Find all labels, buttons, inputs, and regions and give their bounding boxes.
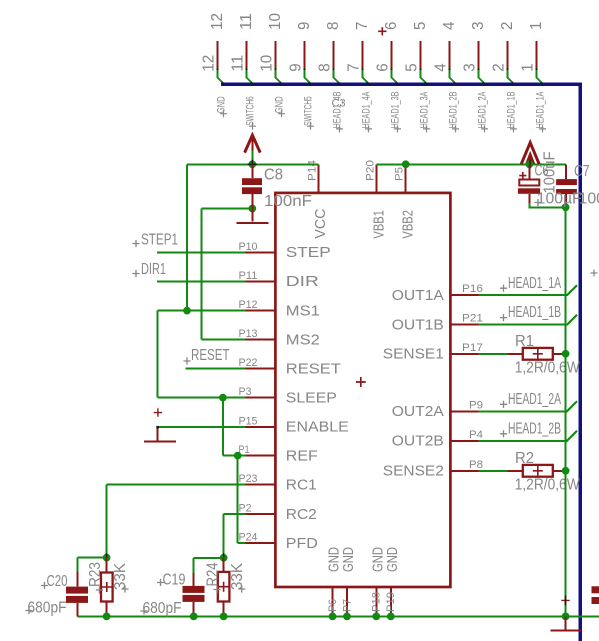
bus horizontal top: [221, 82, 582, 86]
wire jog to REF: [223, 455, 238, 457]
svg-text:10: 10: [267, 13, 284, 30]
wire pin 4 to bus: [450, 70, 457, 85]
label origin cross pin 1: [539, 125, 546, 132]
IC pin SENSE1 stub (P17): [450, 353, 478, 355]
wire C8 bottom to MS2 net: [202, 208, 253, 210]
IC pin VBB1 stub (P20): [376, 164, 378, 193]
pin 9 origin tick: [304, 69, 306, 72]
svg-text:HEAD1_2A: HEAD1_2A: [477, 91, 489, 128]
svg-text:OUT2B: OUT2B: [392, 434, 444, 450]
svg-text:100µF: 100µF: [537, 191, 582, 208]
svg-text:3: 3: [462, 63, 479, 71]
label cross HEAD1_2A: [500, 401, 507, 408]
IC pin GND stub (P7): [346, 587, 348, 616]
svg-text:5: 5: [412, 22, 429, 30]
svg-text:STEP: STEP: [286, 245, 331, 261]
pin 5 origin tick: [420, 69, 422, 72]
wire VBB net horizontal: [377, 163, 566, 165]
svg-text:P2: P2: [239, 503, 252, 515]
svg-text:9: 9: [288, 63, 305, 71]
svg-text:P11: P11: [239, 270, 258, 282]
label origin cross pin 8: [336, 125, 343, 132]
capacitor C20 top lead: [76, 571, 78, 586]
svg-text:33K: 33K: [112, 562, 129, 590]
junction R23 top: [103, 554, 111, 562]
wire RESET row: [185, 368, 245, 370]
wire STEP row: [157, 251, 245, 253]
svg-text:VBB1: VBB1: [371, 210, 387, 239]
connector pin 10 stub: [275, 41, 277, 70]
svg-text:DIR: DIR: [286, 274, 319, 290]
connector pin 11 stub: [246, 41, 248, 70]
svg-text:7: 7: [346, 63, 363, 71]
IC pin OUT2B stub (P4): [450, 440, 478, 442]
IC pin GND stub (P19): [390, 587, 392, 616]
svg-text:680pF: 680pF: [28, 600, 67, 617]
svg-text:P24: P24: [239, 532, 258, 544]
junction R24 top: [220, 554, 228, 562]
svg-text:P22: P22: [239, 357, 258, 369]
connector pin 7 stub: [362, 41, 364, 70]
svg-text:8: 8: [317, 63, 334, 71]
R24 origin cross: [219, 582, 229, 592]
pin 12 origin tick: [217, 69, 219, 72]
R2 right lead: [553, 470, 566, 472]
svg-text:2: 2: [491, 63, 508, 71]
arrow stem: [251, 138, 253, 151]
svg-text:6: 6: [383, 22, 400, 30]
junction P19 on ground rail: [387, 613, 395, 621]
svg-text:SENSE2: SENSE2: [383, 464, 444, 480]
wire pin 1 to bus: [537, 70, 544, 85]
wire PFD row: [238, 542, 246, 544]
svg-text:P14: P14: [306, 160, 318, 181]
R24 bottom lead: [223, 602, 225, 617]
svg-text:C7: C7: [574, 163, 590, 180]
label origin cross pin 5: [423, 125, 430, 132]
label cross HEAD1_1A: [500, 285, 507, 292]
svg-text:P4: P4: [469, 429, 483, 441]
capacitor C6 bottom lead: [528, 194, 530, 203]
label cross 680pF: [25, 607, 32, 614]
svg-text:100uF: 100uF: [542, 152, 559, 194]
pin 3 origin tick: [478, 69, 480, 72]
pin 8 origin tick: [333, 69, 335, 72]
label cross STEP1: [132, 240, 139, 247]
connector pin 2 stub: [507, 41, 509, 70]
svg-text:GND: GND: [341, 547, 357, 572]
IC pin MS1 stub (P12): [245, 310, 275, 312]
junction P7 on ground rail: [343, 613, 351, 621]
svg-text:P13: P13: [239, 328, 258, 340]
connector pin 9 stub: [304, 41, 306, 70]
wire vertical MS2 net: [201, 209, 203, 340]
svg-text:P5: P5: [394, 167, 406, 181]
svg-text:12: 12: [209, 13, 226, 30]
svg-text:VBB2: VBB2: [401, 210, 417, 239]
connector pin 4 stub: [449, 41, 451, 70]
IC pin GND stub (P6): [332, 587, 334, 616]
svg-text:DIR1: DIR1: [141, 261, 166, 278]
junction C8 bottom: [248, 205, 256, 213]
wire to C19: [194, 557, 224, 559]
label origin cross pin 12: [220, 110, 227, 117]
svg-text:P8: P8: [469, 459, 483, 471]
svg-text:C8: C8: [264, 167, 283, 184]
IC pin DIR stub (P11): [245, 281, 275, 283]
wire RC2 row: [224, 513, 246, 515]
wire VCC net vertical to MS1: [186, 164, 188, 310]
svg-text:HEAD1_3A: HEAD1_3A: [419, 91, 431, 128]
svg-text:P7: P7: [341, 599, 353, 612]
svg-text:1,2R/0,6W: 1,2R/0,6W: [515, 477, 580, 494]
IC pin RESET stub (P22): [245, 368, 275, 370]
svg-text:11: 11: [230, 55, 247, 72]
label cross DIR1: [132, 270, 139, 277]
wire MS1 row: [157, 310, 245, 312]
svg-text:OUT1B: OUT1B: [392, 317, 444, 333]
supply arrow VCC (left): [245, 135, 261, 152]
svg-text:680pF: 680pF: [143, 600, 182, 617]
pin 11 origin tick: [246, 69, 248, 72]
ground stub: [565, 616, 567, 629]
wire vertical MS1 to SLEEP: [156, 311, 158, 398]
junction P18 on ground rail: [372, 613, 380, 621]
svg-text:PFD: PFD: [286, 536, 318, 552]
svg-text:P20: P20: [365, 160, 377, 181]
R24 top lead: [223, 558, 225, 572]
R24 origin mark: [223, 553, 225, 562]
svg-text:GND: GND: [216, 96, 228, 113]
wire pin 8 to bus: [334, 70, 341, 85]
svg-text:12: 12: [201, 55, 218, 72]
connector pin 12 stub: [217, 41, 219, 70]
gray cross right edge: [591, 270, 598, 277]
label cross HEAD1_1B: [500, 314, 507, 321]
svg-text:RESET: RESET: [286, 361, 341, 377]
IC pin VBB2 stub (P5): [405, 164, 407, 193]
C8 origin mark: [248, 160, 258, 169]
svg-text:100nF: 100nF: [264, 193, 312, 210]
svg-text:P15: P15: [239, 416, 258, 428]
svg-text:2: 2: [499, 22, 516, 30]
R23 origin mark: [106, 553, 108, 562]
connector pin 1 stub: [536, 41, 538, 70]
pin 10 origin tick: [275, 69, 277, 72]
wire RC1 row: [107, 484, 246, 486]
label cross HEAD1_2B: [500, 430, 507, 437]
svg-text:OUT2A: OUT2A: [392, 404, 444, 420]
wire pin 11 to bus: [247, 70, 254, 85]
IC pin SLEEP stub (P3): [245, 397, 275, 399]
wire vertical sense/ground rail right: [565, 207, 567, 616]
R23 origin cross: [102, 582, 112, 592]
svg-text:3: 3: [470, 22, 487, 30]
bus vertical right: [578, 83, 582, 641]
C6 origin mark: [529, 160, 531, 168]
capacitor C20 bottom lead: [76, 603, 78, 617]
svg-text:HEAD1_2B: HEAD1_2B: [508, 420, 561, 437]
svg-text:11: 11: [238, 13, 255, 30]
R23 bottom lead: [106, 602, 108, 617]
svg-text:1: 1: [528, 22, 545, 30]
C20 top wire: [76, 558, 78, 572]
wire REF row: [238, 455, 246, 457]
label origin cross pin 10: [278, 110, 285, 117]
svg-text:OUT1A: OUT1A: [392, 288, 444, 304]
junction SLEEP: [219, 394, 227, 402]
wire HEAD1_1A to bus: [478, 285, 577, 295]
IC pin RC2 stub (P2): [245, 513, 275, 515]
label cross R23: [96, 586, 103, 593]
capacitor C8 plates: [242, 178, 262, 185]
label cross 33K: [121, 585, 128, 592]
svg-text:SENSE1: SENSE1: [383, 347, 444, 363]
svg-text:4: 4: [441, 22, 458, 30]
junction R2 right: [562, 467, 570, 475]
wire to C20: [77, 557, 106, 559]
svg-text:GND: GND: [274, 96, 286, 113]
svg-text:HEAD1_1B: HEAD1_1B: [506, 92, 518, 129]
IC pin MS2 stub (P13): [245, 339, 275, 341]
svg-text:R23: R23: [87, 562, 104, 587]
label cross C20: [41, 582, 48, 589]
ground origin cross: [154, 408, 162, 416]
pin 7 origin tick: [362, 69, 364, 72]
wire VCC net horizontal: [187, 163, 318, 165]
connector pin 3 stub: [478, 41, 480, 70]
svg-text:RC2: RC2: [286, 507, 317, 523]
label cross 680pF: [140, 607, 147, 614]
svg-text:R2: R2: [515, 450, 534, 467]
capacitor C7 top lead: [565, 164, 567, 179]
capacitor C7 bottom lead: [565, 194, 567, 207]
label origin cross pin 2: [510, 125, 517, 132]
svg-text:MS2: MS2: [286, 332, 320, 348]
IC pin ENABLE stub (P15): [245, 426, 275, 428]
junction C6/C7 bottom: [562, 203, 570, 211]
IC pin SENSE2 stub (P8): [450, 470, 478, 472]
svg-text:P3: P3: [239, 386, 252, 398]
ground bar: [144, 441, 176, 443]
capacitor C19 top lead: [193, 573, 195, 586]
junction VCC node: [248, 160, 256, 168]
junction ground rail right: [562, 613, 570, 621]
IC U1 origin cross: [356, 377, 366, 387]
capacitor C8 top lead: [251, 164, 253, 178]
capacitor C7 plates: [556, 179, 577, 185]
junction P6 on ground rail: [329, 613, 337, 621]
IC pin OUT1A stub (P16): [450, 294, 478, 296]
label cross 33K: [238, 585, 245, 592]
svg-text:HEAD1_2B: HEAD1_2B: [448, 92, 460, 129]
IC pin RC1 stub (P23): [245, 484, 275, 486]
C6 polarity plus: [519, 172, 526, 179]
op IC A4983 U1 body: [275, 193, 450, 587]
junction R1 right: [562, 350, 570, 358]
pin 4 origin tick: [449, 69, 451, 72]
svg-text:P9: P9: [469, 399, 483, 411]
svg-text:SWITCH6: SWITCH6: [245, 96, 257, 126]
wire DIR row: [157, 281, 245, 283]
junction C19 bottom: [190, 613, 198, 621]
capacitor C8 bottom lead: [251, 194, 253, 222]
wire pin 12 to bus: [218, 70, 225, 85]
IC pin OUT1B stub (P21): [450, 324, 478, 326]
wire HEAD1_1B to bus: [478, 315, 577, 325]
R23 top lead: [106, 558, 108, 573]
svg-text:ENABLE: ENABLE: [286, 420, 349, 436]
label origin cross pin 3: [481, 125, 488, 132]
svg-text:P18: P18: [371, 592, 383, 612]
wire vertical SLEEP to REF: [222, 398, 224, 456]
junction R23 bottom: [103, 613, 111, 621]
wire SLEEP row: [157, 397, 245, 399]
svg-text:33K: 33K: [229, 562, 246, 590]
svg-text:P19: P19: [385, 592, 397, 612]
pin 1 origin tick: [536, 69, 538, 72]
svg-text:R1: R1: [515, 333, 534, 350]
svg-text:P12: P12: [239, 299, 258, 311]
svg-text:VCC: VCC: [313, 209, 329, 239]
wire MS2 row: [202, 339, 246, 341]
C19 top wire: [193, 558, 195, 573]
wire RC1 vertical: [106, 485, 108, 558]
svg-text:RESET: RESET: [191, 347, 230, 364]
wire pin 2 to bus: [508, 70, 515, 85]
capacitor (cut off) right edge plates: [592, 586, 599, 593]
svg-text:P17: P17: [462, 342, 483, 354]
capacitor C6 plates (polarized): [519, 180, 539, 186]
svg-text:C20: C20: [47, 573, 68, 590]
R1 left lead: [507, 353, 523, 355]
label cross RESET: [183, 357, 190, 364]
svg-text:HEAD1_2A: HEAD1_2A: [508, 391, 561, 408]
wire vertical REF to PFD: [237, 456, 239, 543]
svg-text:STEP1: STEP1: [141, 232, 178, 249]
IC pin OUT2A stub (P9): [450, 410, 478, 412]
svg-text:HEAD1_3B: HEAD1_3B: [390, 92, 402, 129]
svg-text:SWITCH5: SWITCH5: [303, 96, 315, 126]
capacitor C20 plates: [66, 587, 88, 594]
origin cross near pin 6: [378, 27, 386, 35]
pin 6 origin tick: [391, 69, 393, 72]
svg-text:P6: P6: [327, 599, 339, 612]
wire SENSE to R1: [478, 353, 522, 355]
IC pin STEP stub (P10): [245, 251, 275, 253]
wire SENSE to R2: [478, 470, 522, 472]
wire arrow to node: [251, 151, 253, 165]
svg-text:HEAD1_1A: HEAD1_1A: [508, 275, 561, 292]
junction R24 bottom: [220, 613, 228, 621]
capacitor C19 bottom lead: [193, 602, 195, 617]
svg-text:GND: GND: [385, 547, 401, 572]
svg-text:HEAD1_1A: HEAD1_1A: [535, 91, 547, 128]
label cross C19: [157, 579, 164, 586]
R2 left lead: [507, 470, 523, 472]
connector pin 5 stub: [420, 41, 422, 70]
wire RC2 vertical: [223, 514, 225, 558]
IC pin PFD stub (P24): [245, 542, 275, 544]
svg-text:REF: REF: [286, 448, 318, 464]
wire HEAD1_2B to bus: [478, 431, 577, 441]
ground bar under C8: [237, 222, 269, 224]
svg-text:RC1: RC1: [286, 477, 317, 493]
ground bar: [550, 630, 581, 632]
junction MS1/VCC-net: [183, 307, 191, 315]
R1 right lead: [553, 353, 566, 355]
IC pin REF stub (P1): [245, 455, 275, 457]
svg-text:MS1: MS1: [286, 303, 320, 319]
ground stub: [157, 427, 159, 440]
svg-text:9: 9: [296, 22, 313, 30]
label origin cross pin 4: [452, 125, 459, 132]
junction VBB2 pin: [402, 160, 410, 168]
IC pin VCC stub (P14): [317, 164, 319, 193]
svg-text:8: 8: [325, 22, 342, 30]
label cross R24: [213, 586, 220, 593]
ground origin cross: [561, 596, 569, 604]
label origin cross pin 6: [394, 125, 401, 132]
svg-text:P10: P10: [239, 241, 258, 253]
svg-text:4: 4: [433, 63, 450, 71]
label origin cross pin 9: [307, 123, 314, 130]
svg-text:10: 10: [259, 55, 276, 72]
svg-text:P23: P23: [239, 473, 258, 485]
junction REF: [234, 452, 242, 460]
connector pin 6 stub: [391, 41, 393, 70]
svg-text:P21: P21: [462, 313, 483, 325]
svg-text:100nF: 100nF: [579, 191, 599, 208]
svg-text:1: 1: [520, 63, 537, 71]
wire pin 9 to bus: [305, 70, 312, 85]
wire HEAD1_2A to bus: [478, 401, 577, 411]
IC pin GND stub (P18): [375, 587, 377, 616]
svg-text:7: 7: [354, 22, 371, 30]
ground rail horizontal: [77, 615, 599, 617]
svg-text:HEAD1_1B: HEAD1_1B: [508, 304, 561, 321]
label origin cross pin 11: [249, 123, 256, 130]
svg-text:5: 5: [404, 63, 421, 71]
R1 origin cross: [533, 349, 543, 359]
junction C6 top: [526, 160, 534, 168]
svg-text:HEAD1_4A: HEAD1_4A: [361, 91, 373, 128]
label cross 100uF: [534, 199, 541, 206]
svg-text:6: 6: [375, 63, 392, 71]
capacitor C6 top lead: [528, 164, 530, 179]
wire pin 5 to bus: [421, 70, 428, 85]
capacitor C19 plates: [183, 586, 205, 593]
wire pin 3 to bus: [479, 70, 486, 85]
svg-text:C19: C19: [163, 572, 186, 589]
label origin cross pin 7: [365, 125, 372, 132]
pin 2 origin tick: [507, 69, 509, 72]
R2 origin cross: [533, 466, 543, 476]
wire ENABLE row: [158, 426, 246, 428]
connector pin 8 stub: [333, 41, 335, 70]
wire pin 10 to bus: [276, 70, 283, 85]
svg-text:P16: P16: [462, 283, 483, 295]
svg-text:C3: C3: [332, 98, 346, 110]
supply arrow VBB (right): [521, 143, 539, 165]
wire pin 7 to bus: [363, 70, 370, 85]
svg-text:R24: R24: [204, 562, 221, 586]
svg-text:SLEEP: SLEEP: [286, 390, 337, 406]
wire pin 6 to bus: [392, 70, 399, 85]
svg-text:1,2R/0,6W: 1,2R/0,6W: [515, 360, 580, 377]
